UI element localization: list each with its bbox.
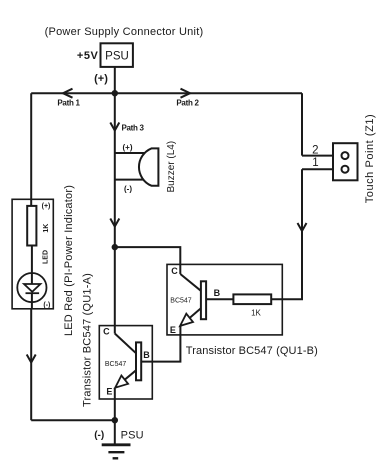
wire to ground [114, 420, 116, 444]
wire QU1-A emitter to bottom junction [114, 388, 116, 421]
svg-text:BC547: BC547 [105, 361, 127, 368]
transistor bar QU1-A [136, 342, 141, 380]
LED triangle [24, 284, 40, 292]
collector line QU1-B [180, 274, 201, 291]
wire QU1-B emitter to QU1-A base [141, 326, 180, 362]
svg-text:(+): (+) [94, 73, 108, 85]
svg-text:1: 1 [312, 157, 318, 169]
wire left rail top [30, 93, 32, 206]
arrow Path 2 (right) [181, 89, 191, 98]
arrow middle rail down [110, 219, 119, 227]
svg-text:(-): (-) [43, 302, 50, 309]
LED indicator outer box [12, 199, 53, 308]
touch point connector Z1 box [333, 143, 358, 180]
svg-text:B: B [214, 288, 221, 298]
svg-text:BC547: BC547 [170, 298, 192, 305]
pin 1 terminal circle [342, 166, 349, 173]
emitter line QU1-A [115, 370, 136, 387]
wire pin 2 [302, 155, 341, 157]
wire PSU to main bus [114, 68, 116, 94]
svg-text:1K: 1K [43, 224, 50, 233]
svg-text:+5V: +5V [77, 50, 99, 62]
wire buzzer plus stub [115, 152, 146, 154]
arrow Path 1 (left) [63, 89, 73, 98]
svg-text:PSU: PSU [105, 51, 129, 63]
LED cathode bar [26, 292, 40, 294]
svg-text:(Power Supply Connector Unit): (Power Supply Connector Unit) [45, 26, 204, 38]
collector line QU1-A [115, 334, 136, 354]
PSU box [101, 43, 133, 67]
svg-text:2: 2 [312, 144, 318, 156]
emitter arrowhead QU1-B [180, 314, 193, 326]
wire main horizontal bus [31, 92, 302, 94]
svg-text:C: C [171, 266, 178, 276]
svg-text:Touch Point (Z1): Touch Point (Z1) [364, 114, 376, 204]
svg-text:(-): (-) [94, 430, 104, 441]
emitter arrowhead QU1-A [115, 376, 128, 388]
transistor bar QU1-B [201, 281, 206, 319]
emitter line QU1-B [180, 308, 201, 326]
wire pin 1 [302, 168, 341, 170]
pin 2 terminal circle [342, 152, 349, 159]
node junction below PSU [112, 90, 118, 96]
svg-text:(-): (-) [124, 185, 132, 194]
svg-text:Path 2: Path 2 [176, 98, 199, 107]
wire resistor to LED [31, 246, 33, 284]
svg-text:E: E [170, 325, 176, 335]
svg-text:Transistor BC547 (QU1-B): Transistor BC547 (QU1-B) [186, 345, 318, 357]
wire buzzer minus stub [115, 179, 144, 181]
svg-text:LED: LED [43, 250, 50, 264]
svg-text:Path 3: Path 3 [122, 124, 145, 133]
buzzer L4 symbol [139, 148, 158, 185]
ground symbol [102, 443, 131, 446]
svg-text:(+): (+) [123, 143, 133, 152]
svg-text:C: C [103, 327, 110, 337]
node bottom junction [112, 417, 118, 423]
wire bottom horizontal [31, 419, 115, 421]
resistor 1K in LED box [27, 206, 36, 246]
svg-text:1K: 1K [251, 308, 261, 317]
transistor QU1-B box [167, 264, 282, 335]
svg-text:LED Red (PI-Power Indicator): LED Red (PI-Power Indicator) [63, 185, 75, 336]
svg-text:Path 1: Path 1 [57, 98, 80, 107]
node junction to QU1-B [112, 244, 118, 250]
wire branch to QU1-B collector [115, 247, 181, 274]
transistor QU1-A box [99, 326, 152, 399]
svg-text:PSU: PSU [121, 429, 144, 441]
wire middle rail [114, 93, 116, 333]
wire right rail lower [271, 169, 302, 299]
base wire QU1-B [206, 298, 233, 300]
arrow left rail down [27, 355, 36, 363]
svg-text:Buzzer (L4): Buzzer (L4) [166, 141, 177, 193]
svg-text:E: E [106, 386, 112, 396]
wire right rail upper [301, 93, 303, 155]
svg-text:(+): (+) [42, 203, 51, 210]
LED circle [17, 273, 46, 302]
svg-text:Transistor BC547 (QU1-A): Transistor BC547 (QU1-A) [82, 273, 94, 407]
resistor 1K (QU1-B base) [233, 294, 271, 304]
arrow Path 3 (down) [110, 123, 119, 131]
svg-text:B: B [143, 350, 150, 360]
arrow right rail down [298, 223, 307, 231]
wire left rail lower [30, 293, 33, 420]
